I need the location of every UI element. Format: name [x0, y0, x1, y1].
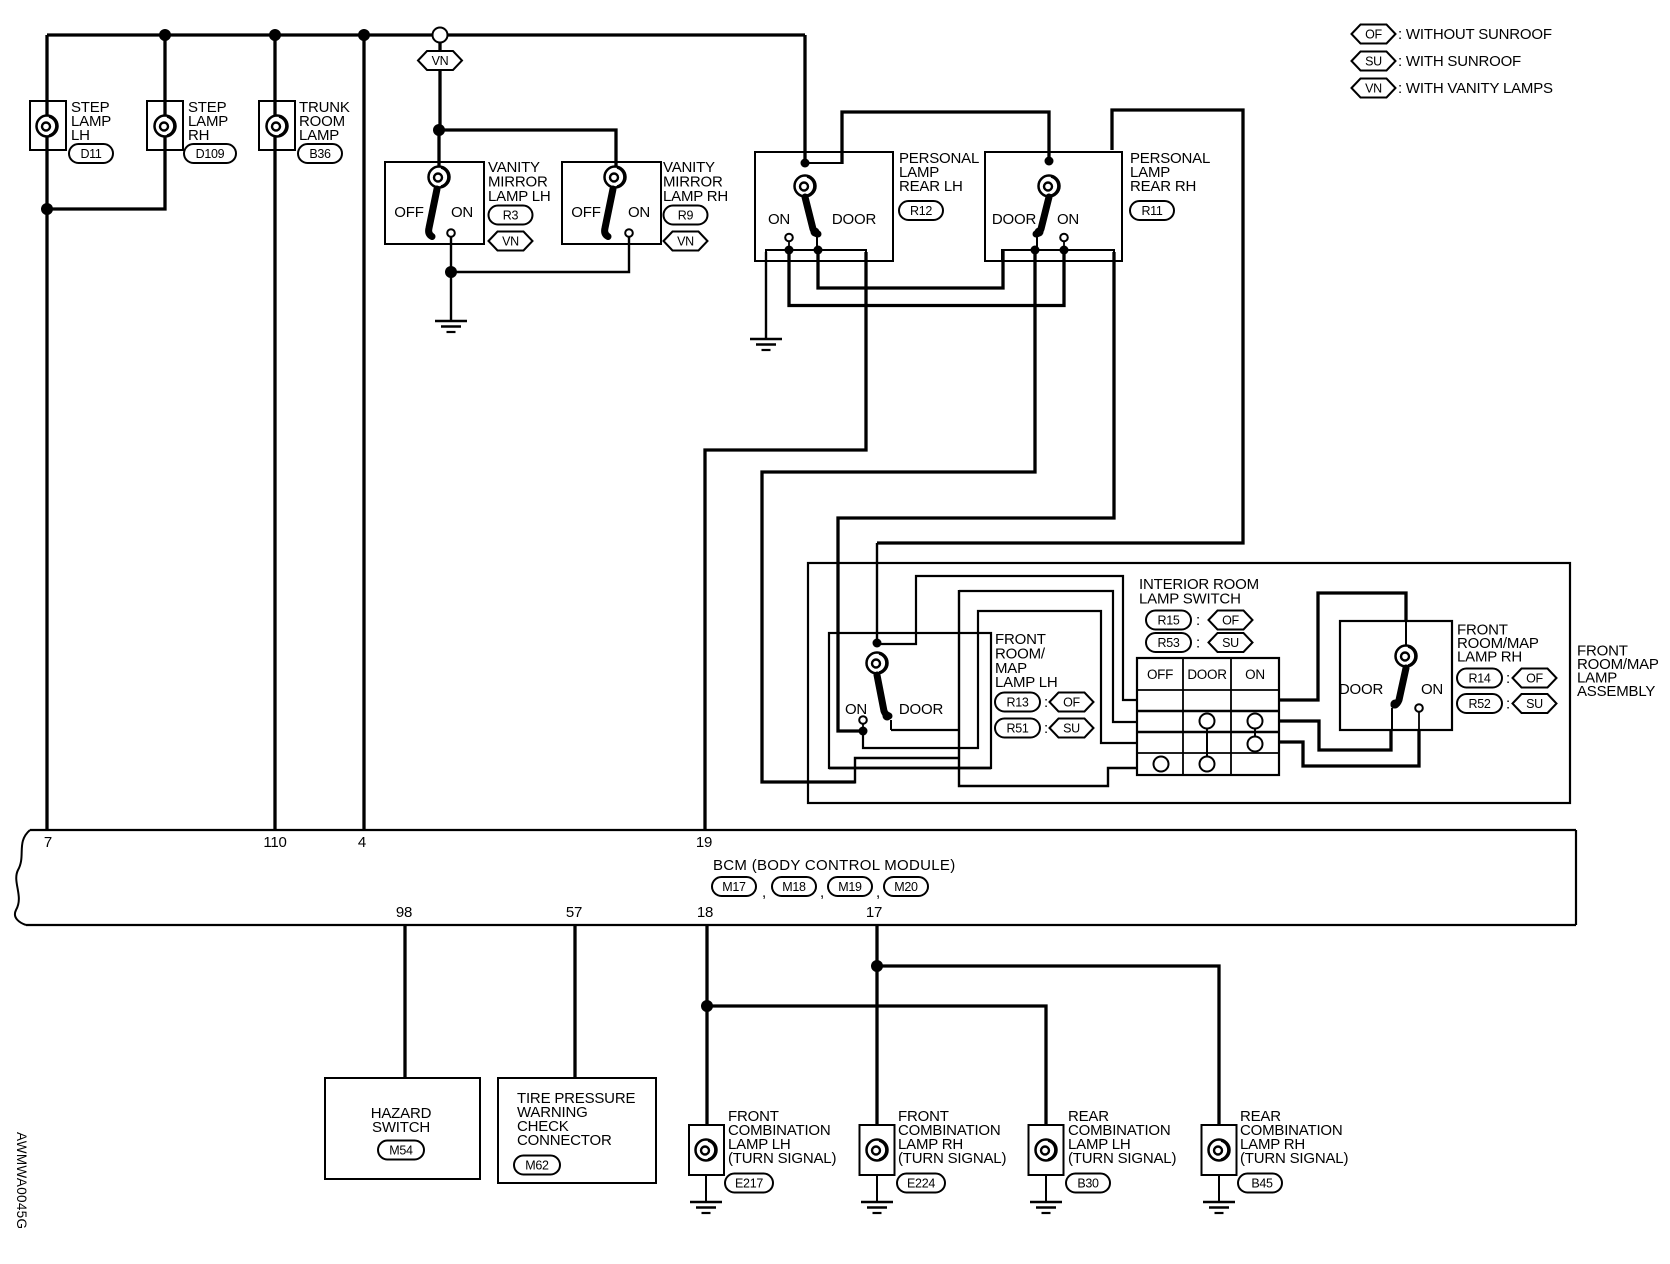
legend hexagon OF: [1352, 25, 1396, 44]
wire BCM pin 18 to front combination lamp LH: [705, 925, 708, 1125]
vanity mirror lamp RH box R9: [562, 162, 661, 244]
connector oval M20: [884, 877, 928, 896]
wire ON loop to grid row3: [863, 611, 1137, 748]
hazard switch box M54: [325, 1078, 480, 1179]
ground E217: [690, 1202, 722, 1213]
BCM box right edge: [1575, 830, 1577, 925]
svg-text:R13: R13: [1006, 696, 1028, 710]
svg-text:ON: ON: [628, 204, 650, 221]
personal lamp rear LH box R12: [755, 152, 893, 261]
node junction dot vanity feed split: [433, 124, 445, 136]
svg-text:DOOR: DOOR: [1187, 667, 1227, 682]
legend hexagon VN: [1352, 79, 1396, 98]
wire personal LH internal feed link: [805, 162, 842, 164]
svg-text:LAMP SWITCH: LAMP SWITCH: [1139, 591, 1241, 608]
svg-text:LAMP LH: LAMP LH: [488, 188, 551, 205]
svg-text:OFF: OFF: [1147, 667, 1173, 682]
svg-text:R14: R14: [1468, 672, 1490, 686]
wire DOOR personal RH down-left into assembly: [762, 250, 1035, 782]
node junction dot vanity ground join: [445, 266, 457, 278]
tire pressure warning check connector box M62: [498, 1078, 656, 1183]
connector oval R3: [489, 206, 533, 225]
connector oval R11: [1130, 201, 1174, 220]
wire personal LH ground: [765, 252, 767, 338]
connector notch personal LH: [766, 250, 866, 261]
switch lever personal LH: [805, 197, 818, 234]
step lamp RH box D109: [147, 101, 183, 150]
wire DOOR pin link personal LH: [816, 236, 818, 250]
option hexagon VN for R3: [489, 232, 533, 251]
wire DOOR net riser and grid row4: [959, 590, 1137, 786]
front combination lamp RH box E224: [860, 1125, 895, 1175]
connector oval B30: [1066, 1174, 1110, 1193]
svg-text::: :: [1506, 670, 1510, 687]
terminal dot DOOR personal RH: [1031, 246, 1040, 255]
front combination lamp LH box E217: [689, 1125, 724, 1175]
connector oval R52: [1457, 694, 1502, 713]
option hexagon SU for R52: [1513, 694, 1557, 713]
wire grid row2 to map lamp RH DOOR: [1279, 721, 1391, 750]
wire vanity RH feed: [439, 130, 616, 168]
wire vanity LH ON terminal down: [450, 237, 452, 272]
terminal ON open circle personal LH: [785, 234, 793, 242]
svg-text:ASSEMBLY: ASSEMBLY: [1577, 683, 1655, 700]
svg-text:SU: SU: [1526, 697, 1543, 711]
svg-text:ON: ON: [1245, 667, 1265, 682]
wire grid row3 to map lamp RH ON: [1279, 730, 1419, 766]
svg-text:: WITHOUT SUNROOF: : WITHOUT SUNROOF: [1398, 26, 1552, 43]
svg-text::: :: [1196, 635, 1200, 652]
connector oval M54: [378, 1141, 424, 1160]
wire personal RH notch to map lamp LH ON: [838, 252, 1114, 731]
svg-text:17: 17: [866, 904, 882, 921]
wire down to BCM pin 4: [362, 35, 365, 830]
option hexagon OF for R13: [1050, 693, 1094, 712]
connector oval M17: [712, 877, 756, 896]
svg-text:SWITCH: SWITCH: [372, 1119, 430, 1136]
ground B30: [1030, 1202, 1062, 1213]
wire step lamp LH branch down to BCM pin 7: [45, 35, 48, 830]
svg-text:57: 57: [566, 904, 582, 921]
wire bulb net to switch grid row1: [877, 576, 1137, 700]
connector oval D109: [184, 144, 236, 163]
switch lever map RH: [1394, 668, 1406, 705]
wire map lamp power rail: [877, 110, 1243, 543]
terminal dot DOOR personal LH: [814, 246, 823, 255]
wire DOOR pin map RH: [1391, 708, 1393, 730]
svg-text:DOOR: DOOR: [832, 211, 877, 228]
svg-text:M54: M54: [389, 1144, 413, 1158]
svg-text:D11: D11: [80, 147, 101, 161]
trunk room lamp box B36: [259, 101, 295, 150]
svg-text:R53: R53: [1157, 636, 1179, 650]
wire personal lamp LH feed from bus: [803, 35, 806, 164]
option hexagon SU for R51: [1050, 719, 1094, 738]
wire personal LH notch to BCM pin 19: [705, 252, 866, 830]
svg-text:98: 98: [396, 904, 412, 921]
terminal dot ON personal LH: [785, 246, 794, 255]
BCM box bottom edge: [26, 924, 1576, 926]
node junction dot pin17 branch: [871, 960, 883, 972]
svg-text:LAMP RH: LAMP RH: [1457, 649, 1522, 666]
terminal dot ON personal RH: [1060, 246, 1069, 255]
svg-text:VN: VN: [502, 235, 519, 249]
contact blob personal RH: [1035, 228, 1044, 237]
connector oval D11: [69, 144, 113, 163]
rear combination lamp LH box B30: [1029, 1125, 1064, 1175]
wire grid row1 to map lamp RH bulb: [1279, 593, 1406, 700]
lamp bulb map RH: [1396, 646, 1417, 667]
svg-text:VN: VN: [1365, 82, 1382, 96]
switch contact circle DOOR row4: [1200, 757, 1215, 772]
svg-text:OF: OF: [1526, 672, 1543, 686]
connector oval R53: [1146, 633, 1191, 652]
svg-text:ON: ON: [768, 211, 790, 228]
svg-text:REAR RH: REAR RH: [1130, 178, 1196, 195]
contact blob map LH: [883, 712, 892, 721]
wire branch to rear combination lamp LH: [707, 1006, 1046, 1125]
front room/map lamp RH box: [1340, 621, 1452, 730]
link ON row2-row3: [1254, 729, 1256, 737]
connector oval M62: [514, 1156, 560, 1175]
svg-text:LAMP RH: LAMP RH: [663, 188, 728, 205]
svg-text:(TURN SIGNAL): (TURN SIGNAL): [1240, 1150, 1348, 1167]
wire personal RH feed via top: [842, 112, 1049, 164]
wire vanity ground stem: [450, 272, 452, 320]
terminal ON open circle map LH: [859, 716, 867, 724]
BCM box torn left edge: [15, 830, 30, 925]
connector oval R14: [1457, 669, 1502, 688]
BCM box top edge: [30, 829, 1576, 831]
grid row borders: [1137, 690, 1279, 753]
connector oval M19: [828, 877, 872, 896]
svg-text:R9: R9: [678, 209, 694, 223]
svg-text:M18: M18: [782, 880, 806, 894]
wire ON pin link personal LH: [788, 241, 790, 250]
wire BCM pin 57 to tire pressure connector: [573, 925, 576, 1078]
option hexagon VN for R9: [664, 232, 708, 251]
terminal ON open circle vanity RH: [625, 229, 633, 237]
wire map lamp LH bulb feed drop: [876, 543, 878, 643]
svg-text:SU: SU: [1222, 636, 1239, 650]
contact blob map RH: [1391, 700, 1400, 709]
option hexagon VN on feed: [418, 51, 462, 70]
wire DOOR pin map LH: [890, 720, 892, 730]
wire DOOR link to riser: [891, 729, 959, 731]
connector oval R9: [664, 206, 708, 225]
wire vanity LH feed: [437, 130, 440, 168]
wire lamp B30 to ground: [1045, 1175, 1047, 1201]
switch lever vanity LH: [429, 189, 437, 237]
option hexagon SU for R53: [1209, 633, 1253, 652]
lamp bulb vanity RH: [605, 167, 626, 188]
option hexagon OF for R15: [1209, 611, 1253, 630]
terminal ON open circle vanity LH: [447, 229, 455, 237]
wire lamp B45 to ground: [1218, 1175, 1220, 1201]
front room/map lamp assembly outer box: [808, 563, 1570, 803]
connector notch personal RH: [1002, 250, 1114, 261]
svg-text:B36: B36: [309, 147, 331, 161]
connector oval R12: [899, 201, 943, 220]
svg-text:4: 4: [358, 834, 366, 851]
svg-text:M17: M17: [722, 880, 746, 894]
switch contact circle ON row2: [1248, 714, 1263, 729]
svg-text:DOOR: DOOR: [899, 701, 944, 718]
wire DOOR pin link personal RH: [1036, 236, 1038, 250]
link DOOR row2-row4: [1206, 729, 1208, 757]
wire ON pin link personal RH: [1063, 241, 1065, 250]
svg-text:R3: R3: [503, 209, 519, 223]
svg-text:ON: ON: [1057, 211, 1079, 228]
svg-text::: :: [1044, 694, 1048, 711]
interior room lamp switch grid: [1137, 658, 1279, 775]
wire ON pin link map RH: [1418, 712, 1420, 730]
svg-text:BCM (BODY CONTROL MODULE): BCM (BODY CONTROL MODULE): [713, 857, 956, 874]
svg-text:,: ,: [820, 884, 824, 901]
node feed dot personal RH: [1045, 157, 1054, 166]
svg-text::: :: [1506, 696, 1510, 713]
wire VN stem to junction: [438, 70, 441, 131]
svg-text:D109: D109: [196, 147, 225, 161]
node junction dot BCM pin4 tap: [358, 29, 370, 41]
grid column borders: [1183, 658, 1231, 775]
svg-text:(TURN SIGNAL): (TURN SIGNAL): [1068, 1150, 1176, 1167]
switch contact circle OFF row4: [1154, 757, 1169, 772]
box bottom edge emphasis: [829, 767, 991, 770]
lamp bulb personal RH: [1039, 176, 1060, 197]
svg-text:LAMP LH: LAMP LH: [995, 674, 1058, 691]
switch contact circle ON row3: [1248, 737, 1263, 752]
svg-text:SU: SU: [1063, 722, 1080, 736]
connector oval B36: [298, 144, 342, 163]
svg-text:R51: R51: [1006, 722, 1028, 736]
lamp bulb map LH: [867, 653, 888, 674]
terminal ON open circle map RH: [1415, 704, 1423, 712]
lamp bulb vanity LH: [429, 167, 450, 188]
svg-text:,: ,: [762, 884, 766, 901]
svg-text:R52: R52: [1468, 697, 1490, 711]
svg-text:OFF: OFF: [394, 204, 423, 221]
vanity mirror lamp LH box R3: [385, 162, 484, 244]
svg-text:19: 19: [696, 834, 712, 851]
svg-text:ON: ON: [451, 204, 473, 221]
svg-text:E217: E217: [735, 1177, 763, 1191]
svg-text:18: 18: [697, 904, 713, 921]
svg-text:: WITH VANITY LAMPS: : WITH VANITY LAMPS: [1398, 80, 1553, 97]
ground vanity lamps: [435, 321, 467, 332]
svg-text:RH: RH: [188, 127, 209, 144]
svg-text::: :: [1044, 720, 1048, 737]
svg-text:REAR LH: REAR LH: [899, 178, 963, 195]
wire VN stem upper: [438, 42, 441, 52]
ground E224: [861, 1202, 893, 1213]
connector oval B45: [1238, 1174, 1282, 1193]
node feed dot map lamp LH: [873, 639, 882, 648]
wire step lamp RH branch: [47, 35, 165, 209]
contact blob personal LH: [811, 228, 820, 237]
ground personal lamp LH: [750, 339, 782, 350]
personal lamp rear RH box R11: [985, 152, 1122, 261]
svg-text:M62: M62: [525, 1159, 549, 1173]
ground B45: [1203, 1202, 1235, 1213]
connector oval R13: [995, 693, 1040, 712]
connector oval E224: [897, 1174, 945, 1193]
svg-text:DOOR: DOOR: [992, 211, 1037, 228]
svg-text:SU: SU: [1365, 55, 1382, 69]
wire ON net personal lamps: [789, 250, 1064, 306]
svg-text:M19: M19: [838, 880, 862, 894]
svg-text:E224: E224: [907, 1177, 935, 1191]
legend hexagon SU: [1352, 52, 1396, 71]
wire lamp E224 to ground: [876, 1175, 878, 1201]
switch lever personal RH: [1036, 197, 1049, 234]
svg-text:(TURN SIGNAL): (TURN SIGNAL): [898, 1150, 1006, 1167]
svg-text:7: 7: [44, 834, 52, 851]
svg-text:OF: OF: [1365, 28, 1382, 42]
svg-text:: WITH SUNROOF: : WITH SUNROOF: [1398, 53, 1521, 70]
wire map RH bulb feed: [1405, 621, 1407, 646]
wire top power bus: [47, 33, 805, 36]
svg-text:R12: R12: [910, 204, 932, 218]
wire trunk room lamp branch down to BCM pin 110: [273, 35, 276, 830]
svg-text::: :: [1196, 612, 1200, 629]
svg-text:M20: M20: [894, 880, 918, 894]
svg-text:VN: VN: [432, 54, 449, 68]
node feed dot personal LH: [801, 159, 810, 168]
svg-text:AWMWA0045G: AWMWA0045G: [14, 1132, 29, 1229]
svg-text:LAMP: LAMP: [299, 127, 339, 144]
svg-text:VN: VN: [677, 235, 694, 249]
svg-text:ON: ON: [1421, 681, 1443, 698]
wire DOOR personal LH to RH notch: [818, 250, 1003, 288]
svg-text:OF: OF: [1222, 614, 1239, 628]
wire BCM pin 98 to hazard switch: [403, 925, 406, 1078]
wire BCM pin 17 to front combination lamp RH: [875, 925, 878, 1125]
svg-text:CONNECTOR: CONNECTOR: [517, 1132, 612, 1149]
node dot map lamp LH ON terminal: [859, 727, 868, 736]
svg-text:DOOR: DOOR: [1339, 681, 1384, 698]
svg-text:OF: OF: [1063, 696, 1080, 710]
terminal ON open circle personal RH: [1060, 234, 1068, 242]
wire DOOR net link to riser: [855, 758, 959, 784]
rear combination lamp RH box B45: [1202, 1125, 1237, 1175]
wire vanity RH ON terminal link: [451, 237, 629, 272]
switch contact circle DOOR row2: [1200, 714, 1215, 729]
connector oval R15: [1146, 611, 1191, 630]
node junction dot pin18 branch: [701, 1000, 713, 1012]
front room/map lamp LH box: [829, 633, 991, 768]
svg-text:110: 110: [263, 834, 286, 851]
svg-text:R15: R15: [1157, 614, 1179, 628]
wire branch to rear combination lamp RH: [877, 966, 1219, 1125]
option hexagon OF for R14: [1513, 669, 1557, 688]
connector oval E217: [725, 1174, 773, 1193]
svg-text:,: ,: [876, 884, 880, 901]
step lamp LH box D11: [30, 101, 66, 150]
svg-text:B30: B30: [1077, 1177, 1099, 1191]
svg-text:B45: B45: [1251, 1177, 1273, 1191]
svg-text:R11: R11: [1141, 204, 1162, 218]
switch lever map LH: [877, 675, 889, 716]
svg-text:LH: LH: [71, 127, 90, 144]
wire ON pin link map LH: [862, 724, 864, 731]
svg-text:OFF: OFF: [571, 204, 600, 221]
node VN tap open circle on bus: [433, 28, 448, 43]
lamp bulb personal LH: [795, 176, 816, 197]
wire lamp E217 to ground: [705, 1175, 707, 1201]
node junction dot trunk lamp tap: [269, 29, 281, 41]
node junction dot step lamps join: [41, 203, 53, 215]
svg-text:(TURN SIGNAL): (TURN SIGNAL): [728, 1150, 836, 1167]
wire DOOR net to grid row2: [959, 591, 1137, 722]
connector oval M18: [772, 877, 816, 896]
node junction dot step lamp RH tap: [159, 29, 171, 41]
connector oval R51: [995, 719, 1040, 738]
switch lever vanity RH: [605, 189, 613, 237]
